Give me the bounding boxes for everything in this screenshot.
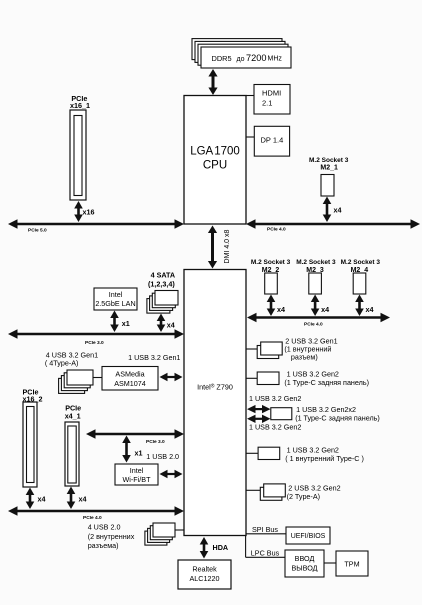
svg-text:ВВОД: ВВОД bbox=[295, 554, 315, 563]
svg-text:(1 Type-C задняя панель): (1 Type-C задняя панель) bbox=[295, 414, 380, 423]
svg-text:x4: x4 bbox=[167, 321, 175, 330]
svg-text:UEFI/BIOS: UEFI/BIOS bbox=[291, 533, 326, 540]
svg-text:ALC1220: ALC1220 bbox=[190, 574, 220, 583]
svg-text:( 4Type-A): ( 4Type-A) bbox=[45, 359, 79, 368]
svg-text:x1: x1 bbox=[122, 319, 130, 328]
svg-text:LGA 1700: LGA 1700 bbox=[190, 146, 240, 158]
svg-text:PCIe 3.0: PCIe 3.0 bbox=[146, 439, 165, 445]
svg-text:ASM1074: ASM1074 bbox=[114, 379, 146, 388]
svg-text:HDA: HDA bbox=[213, 543, 229, 552]
svg-text:4 SATA: 4 SATA bbox=[151, 271, 176, 280]
svg-text:DP 1.4: DP 1.4 bbox=[261, 136, 284, 145]
svg-text:M.2 Socket 3: M.2 Socket 3 bbox=[296, 259, 336, 266]
svg-text:PCIe 5.0: PCIe 5.0 bbox=[28, 227, 47, 233]
svg-text:1 USB 2.0: 1 USB 2.0 bbox=[146, 452, 179, 461]
svg-text:TPM: TPM bbox=[344, 560, 359, 569]
svg-text:( 1 внутренний Type-C ): ( 1 внутренний Type-C ) bbox=[285, 454, 364, 463]
svg-text:1 USB 3.2 Gen2x2: 1 USB 3.2 Gen2x2 bbox=[296, 405, 356, 414]
svg-text:x16_1: x16_1 bbox=[70, 101, 90, 110]
svg-text:DMI 4.0 x8: DMI 4.0 x8 bbox=[224, 229, 231, 263]
svg-text:Intel: Intel bbox=[109, 290, 123, 299]
svg-text:7200: 7200 bbox=[246, 53, 266, 63]
svg-text:Realtek: Realtek bbox=[192, 565, 217, 574]
svg-text:до: до bbox=[237, 56, 245, 63]
svg-text:x4: x4 bbox=[321, 305, 329, 314]
svg-text:разъем): разъем) bbox=[291, 352, 318, 361]
svg-text:x4: x4 bbox=[277, 305, 285, 314]
svg-text:ASMedia: ASMedia bbox=[115, 370, 144, 379]
svg-text:M.2 Socket 3: M.2 Socket 3 bbox=[341, 259, 381, 266]
svg-text:MHz: MHz bbox=[268, 56, 283, 63]
svg-text:(2 Type-A): (2 Type-A) bbox=[287, 492, 320, 501]
svg-text:HDMI: HDMI bbox=[262, 89, 281, 98]
svg-text:1 USB 3.2 Gen2: 1 USB 3.2 Gen2 bbox=[249, 423, 301, 432]
svg-text:x4: x4 bbox=[334, 206, 342, 215]
svg-text:Intel: Intel bbox=[130, 466, 144, 475]
svg-text:PCIe 4.0: PCIe 4.0 bbox=[304, 321, 323, 327]
svg-text:Wi-Fi/BT: Wi-Fi/BT bbox=[123, 475, 152, 484]
svg-text:DDR5: DDR5 bbox=[212, 54, 232, 63]
svg-text:(1,2,3,4): (1,2,3,4) bbox=[148, 280, 175, 289]
svg-text:x1: x1 bbox=[135, 449, 143, 458]
svg-text:M.2 Socket 3: M.2 Socket 3 bbox=[309, 157, 349, 164]
svg-text:Intel® Z790: Intel® Z790 bbox=[197, 383, 233, 392]
svg-text:x4_1: x4_1 bbox=[65, 412, 81, 421]
svg-text:x4: x4 bbox=[79, 495, 87, 504]
svg-text:ВЫВОД: ВЫВОД bbox=[291, 563, 317, 572]
svg-text:1 USB 3.2 Gen1: 1 USB 3.2 Gen1 bbox=[128, 353, 180, 362]
svg-text:4 USB 2.0: 4 USB 2.0 bbox=[88, 523, 121, 532]
svg-text:2.1: 2.1 bbox=[262, 99, 272, 108]
svg-text:1 USB 3.2 Gen2: 1 USB 3.2 Gen2 bbox=[287, 445, 339, 454]
svg-text:(1 Type-C задняя панель): (1 Type-C задняя панель) bbox=[284, 378, 369, 387]
svg-text:M.2 Socket 3: M.2 Socket 3 bbox=[251, 259, 291, 266]
svg-text:x4: x4 bbox=[366, 305, 374, 314]
svg-text:M2_1: M2_1 bbox=[320, 165, 338, 172]
svg-text:PCIe 4.0: PCIe 4.0 bbox=[83, 515, 102, 521]
svg-text:2.5GbE LAN: 2.5GbE LAN bbox=[95, 299, 135, 308]
svg-text:разъема): разъема) bbox=[88, 541, 119, 550]
svg-text:PCIe 4.0: PCIe 4.0 bbox=[267, 226, 286, 232]
svg-text:x16: x16 bbox=[83, 208, 95, 217]
svg-text:LPC Bus: LPC Bus bbox=[251, 549, 280, 558]
svg-text:SPI Bus: SPI Bus bbox=[252, 525, 278, 534]
svg-text:1 USB 3.2 Gen2: 1 USB 3.2 Gen2 bbox=[249, 394, 301, 403]
svg-text:x4: x4 bbox=[38, 495, 46, 504]
svg-text:PCIe 3.0: PCIe 3.0 bbox=[85, 340, 104, 346]
svg-text:(2 внутренних: (2 внутренних bbox=[88, 532, 135, 541]
svg-text:CPU: CPU bbox=[203, 160, 227, 172]
